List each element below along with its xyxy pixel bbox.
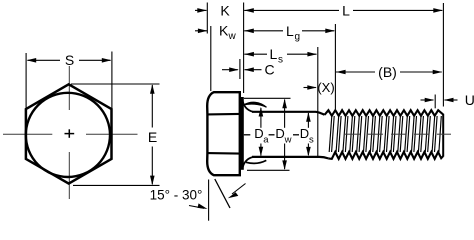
hex head outline (side): [207, 92, 240, 175]
fillet transition lens bottom: [246, 160, 266, 163]
fillet transition lens top (Da): [244, 102, 267, 107]
washer face top extension: [244, 97, 291, 99]
chamfer angle callout: [208, 180, 210, 221]
shank bottom line: [252, 157, 328, 159]
fillet bottom: [243, 157, 253, 167]
dimension C: [222, 69, 238, 71]
dimension E extension lines: [71, 84, 160, 185]
fillet top: [243, 102, 253, 112]
dimension (X): [304, 87, 316, 89]
bolt end face: [442, 114, 444, 157]
svg-text:L: L: [270, 46, 278, 62]
washer face: [240, 97, 244, 170]
head facet line upper: [207, 113, 239, 116]
svg-text:w: w: [284, 134, 292, 145]
dimension L: [244, 8, 254, 13]
svg-text:g: g: [295, 32, 301, 43]
svg-text:E: E: [148, 129, 157, 145]
svg-text:w: w: [228, 31, 237, 42]
svg-text:a: a: [263, 134, 269, 145]
dimension Lg: [244, 29, 254, 34]
svg-text:s: s: [278, 55, 283, 66]
dimension Ds line: [307, 113, 309, 155]
threads bottom zigzag: [328, 152, 443, 159]
extension line washer right: [243, 3, 245, 94]
svg-text:K: K: [219, 23, 229, 39]
dimension Dw line: [284, 100, 286, 170]
chamfer circle: [26, 93, 110, 177]
extension line head top: [210, 26, 212, 91]
dimension Da line: [260, 108, 262, 156]
extension line washer left (C): [239, 59, 241, 79]
svg-text:K: K: [220, 3, 230, 19]
head facet line lower: [207, 152, 239, 155]
svg-text:C: C: [264, 62, 274, 78]
extension line Lg right: [334, 24, 336, 109]
dimension (B): [336, 70, 346, 75]
dimension U: [421, 99, 434, 101]
labels Da Dw Ds: [244, 134, 251, 136]
shank top line: [252, 112, 325, 115]
washer face bottom extension: [247, 169, 290, 171]
hex head outline (front): [26, 84, 112, 183]
center cross: [65, 129, 75, 138]
extension line K left: [206, 3, 208, 34]
svg-text:D: D: [300, 126, 309, 141]
dimension Kw: [195, 30, 207, 32]
svg-text:15° - 30°: 15° - 30°: [150, 188, 203, 203]
centerline horizontal: [3, 133, 138, 135]
svg-text:D: D: [275, 126, 284, 141]
svg-text:(B): (B): [378, 64, 397, 80]
dimension E: [151, 85, 153, 184]
svg-text:L: L: [342, 2, 350, 18]
centerline vertical: [68, 66, 70, 199]
threads top zigzag: [325, 110, 444, 116]
thread flank lines: [329, 116, 441, 152]
dimension K: [195, 9, 207, 11]
dimension Ls: [244, 52, 254, 57]
svg-text:S: S: [65, 52, 74, 68]
svg-text:L: L: [286, 23, 294, 39]
extension tick U left: [434, 95, 436, 109]
svg-text:D: D: [254, 126, 263, 141]
dimension S extension lines: [26, 52, 112, 115]
dimension S: [28, 59, 111, 61]
extension line L right / bolt end: [442, 3, 444, 107]
extension line Ls right: [317, 47, 319, 157]
bolt centerline dashes: [345, 133, 451, 135]
svg-text:s: s: [309, 134, 314, 145]
svg-text:U: U: [465, 92, 474, 108]
svg-text:(X): (X): [317, 80, 334, 95]
